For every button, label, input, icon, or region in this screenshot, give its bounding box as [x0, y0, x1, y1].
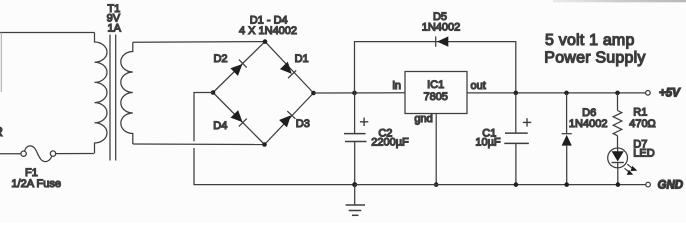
- diode D5: [436, 36, 449, 46]
- wire +5V output rail: [467, 92, 646, 94]
- wire D5 bypass rail: [355, 42, 516, 93]
- bridge arm left-bottom with diode D4: [213, 93, 265, 145]
- transformer T1 primary winding: [95, 33, 108, 154]
- ground node: [352, 182, 357, 187]
- wire AC bottom lead to fuse: [0, 153, 21, 155]
- svg-text:R: R: [0, 124, 3, 139]
- node bridge bottom: [262, 142, 267, 147]
- svg-text:in: in: [392, 80, 401, 92]
- svg-text:470Ω: 470Ω: [629, 118, 656, 130]
- terminal GND: [646, 182, 651, 187]
- node D6 top: [564, 91, 569, 96]
- svg-text:IC1: IC1: [427, 79, 444, 91]
- svg-text:1/2A Fuse: 1/2A Fuse: [11, 178, 61, 190]
- node bridge right: [311, 91, 316, 96]
- wire IC1 gnd to bottom rail: [435, 114, 437, 185]
- transformer core line 1: [109, 35, 111, 161]
- diode D6: [562, 93, 572, 185]
- terminal +5V: [646, 91, 651, 96]
- LED light arrow 2: [625, 168, 634, 175]
- bridge arm top-right with diode D1: [265, 42, 314, 93]
- node gnd/rail: [434, 182, 439, 187]
- node bridge left: [211, 90, 216, 95]
- wire bottom rail: [355, 184, 646, 186]
- svg-text:gnd: gnd: [414, 113, 432, 125]
- node R1 top: [615, 91, 620, 96]
- svg-text:D1: D1: [295, 53, 309, 65]
- transformer core line 2: [115, 35, 117, 161]
- svg-text:1N4002: 1N4002: [569, 118, 608, 130]
- resistor R1: [613, 93, 622, 148]
- svg-text:2200µF: 2200µF: [371, 137, 409, 149]
- wire AC left lead (cut off): [0, 33, 2, 93]
- svg-text:5 volt 1 amp: 5 volt 1 amp: [545, 32, 635, 49]
- svg-text:Power Supply: Power Supply: [544, 50, 645, 67]
- node bridge top: [263, 39, 268, 44]
- capacitor C2: [344, 93, 367, 185]
- bridge arm bottom-right with diode D3: [265, 93, 314, 145]
- svg-text:D2: D2: [213, 53, 227, 65]
- svg-text:GND: GND: [658, 179, 684, 191]
- node C1 bottom: [514, 182, 519, 187]
- svg-text:4 X 1N4002: 4 X 1N4002: [239, 25, 297, 37]
- node D5/C1: [514, 91, 519, 96]
- node D7 bottom: [616, 182, 621, 187]
- svg-text:7805: 7805: [423, 91, 447, 103]
- svg-text:R1: R1: [633, 107, 647, 119]
- scan smudge top right: [0, 0, 1, 1]
- node D6 bottom: [564, 182, 569, 187]
- capacitor C1: [504, 93, 529, 185]
- svg-text:D4: D4: [213, 120, 227, 132]
- plus sign C1: [523, 118, 531, 126]
- transformer T1 secondary winding: [121, 42, 133, 144]
- svg-text:10µF: 10µF: [475, 137, 501, 149]
- svg-text:LED: LED: [633, 147, 654, 159]
- op-amp/regulator IC1 box: [405, 72, 467, 114]
- ground symbol: [346, 185, 365, 216]
- LED D7: [608, 148, 628, 185]
- fuse F1: [21, 146, 94, 162]
- wire secondary top to bridge top node: [133, 41, 265, 44]
- svg-text:1N4002: 1N4002: [422, 22, 461, 34]
- svg-text:1A: 1A: [107, 22, 121, 34]
- svg-text:out: out: [471, 80, 486, 92]
- svg-text:+5V: +5V: [659, 87, 681, 99]
- bridge arm left-top with diode D2: [213, 42, 265, 93]
- LED light arrow 1: [627, 164, 637, 171]
- node C2/D5 branch: [352, 91, 357, 96]
- wire bridge right node to IC1 in: [314, 92, 406, 94]
- svg-text:D3: D3: [296, 118, 310, 130]
- wire AC top lead: [0, 32, 95, 34]
- wire secondary bottom to bridge bottom node: [133, 143, 265, 146]
- wire bridge left node to bottom rail (with crossover gap): [194, 93, 213, 142]
- plus sign C2: [360, 118, 368, 126]
